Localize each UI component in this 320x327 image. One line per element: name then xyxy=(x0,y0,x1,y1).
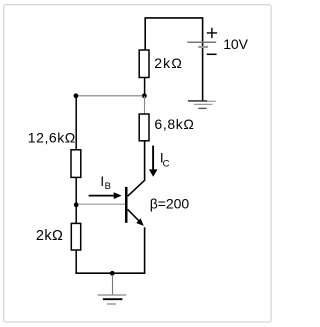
wire: emitter rail down xyxy=(144,227,146,273)
resistor R4 2k (left bottom) xyxy=(71,223,80,250)
transistor Q1 emitter arrowhead xyxy=(136,218,144,226)
wire: bottom rail xyxy=(75,272,145,274)
current arrow IC xyxy=(152,146,154,170)
transistor Q1 base bar xyxy=(125,187,128,223)
svg-text:2kΩ: 2kΩ xyxy=(154,55,182,71)
node dot (left, top of R2 branch) xyxy=(74,93,79,98)
minus sign xyxy=(207,53,217,55)
wire: collector drop and bend into base bar xyxy=(128,141,145,196)
wire: horizontal gray wire between left rail and collector node xyxy=(76,95,144,97)
battery V1 minus plate xyxy=(198,46,208,48)
svg-text:C: C xyxy=(163,158,170,169)
svg-text:B: B xyxy=(105,181,111,192)
resistor R1 2k (top) xyxy=(139,50,149,78)
wire: left rail bottom xyxy=(75,250,77,273)
ground (bottom) xyxy=(98,294,127,296)
svg-text:I: I xyxy=(100,174,104,189)
wire: gray stub to ground xyxy=(112,275,114,295)
node dot (ground branch) xyxy=(110,271,115,276)
wire: R1 bottom to node xyxy=(144,78,146,96)
node dot (base branch) xyxy=(74,202,79,207)
resistor R3 12,6k xyxy=(71,150,81,178)
plus sign xyxy=(207,28,217,38)
wire: gray stub from node to R5 top xyxy=(144,96,146,114)
ground (battery) xyxy=(188,100,207,102)
transistor Q1 emitter line xyxy=(128,209,140,221)
battery V1 plus plate xyxy=(187,41,216,43)
svg-text:β=200: β=200 xyxy=(150,195,190,211)
svg-text:12,6kΩ: 12,6kΩ xyxy=(28,130,75,146)
resistor R5 6,8k xyxy=(139,114,149,141)
wire: left rail down from node xyxy=(75,96,77,150)
wire: gray base wire to transistor xyxy=(78,203,125,205)
svg-text:2kΩ: 2kΩ xyxy=(36,228,63,244)
wire: left rail between R3 and R4 xyxy=(75,177,77,223)
current arrow IB xyxy=(89,195,115,197)
svg-text:6,8kΩ: 6,8kΩ xyxy=(154,116,194,132)
wire: top rail from R1 top up, across, and battery drop xyxy=(145,18,202,101)
svg-text:10V: 10V xyxy=(223,36,248,52)
node dot (collector branch) xyxy=(142,93,147,98)
